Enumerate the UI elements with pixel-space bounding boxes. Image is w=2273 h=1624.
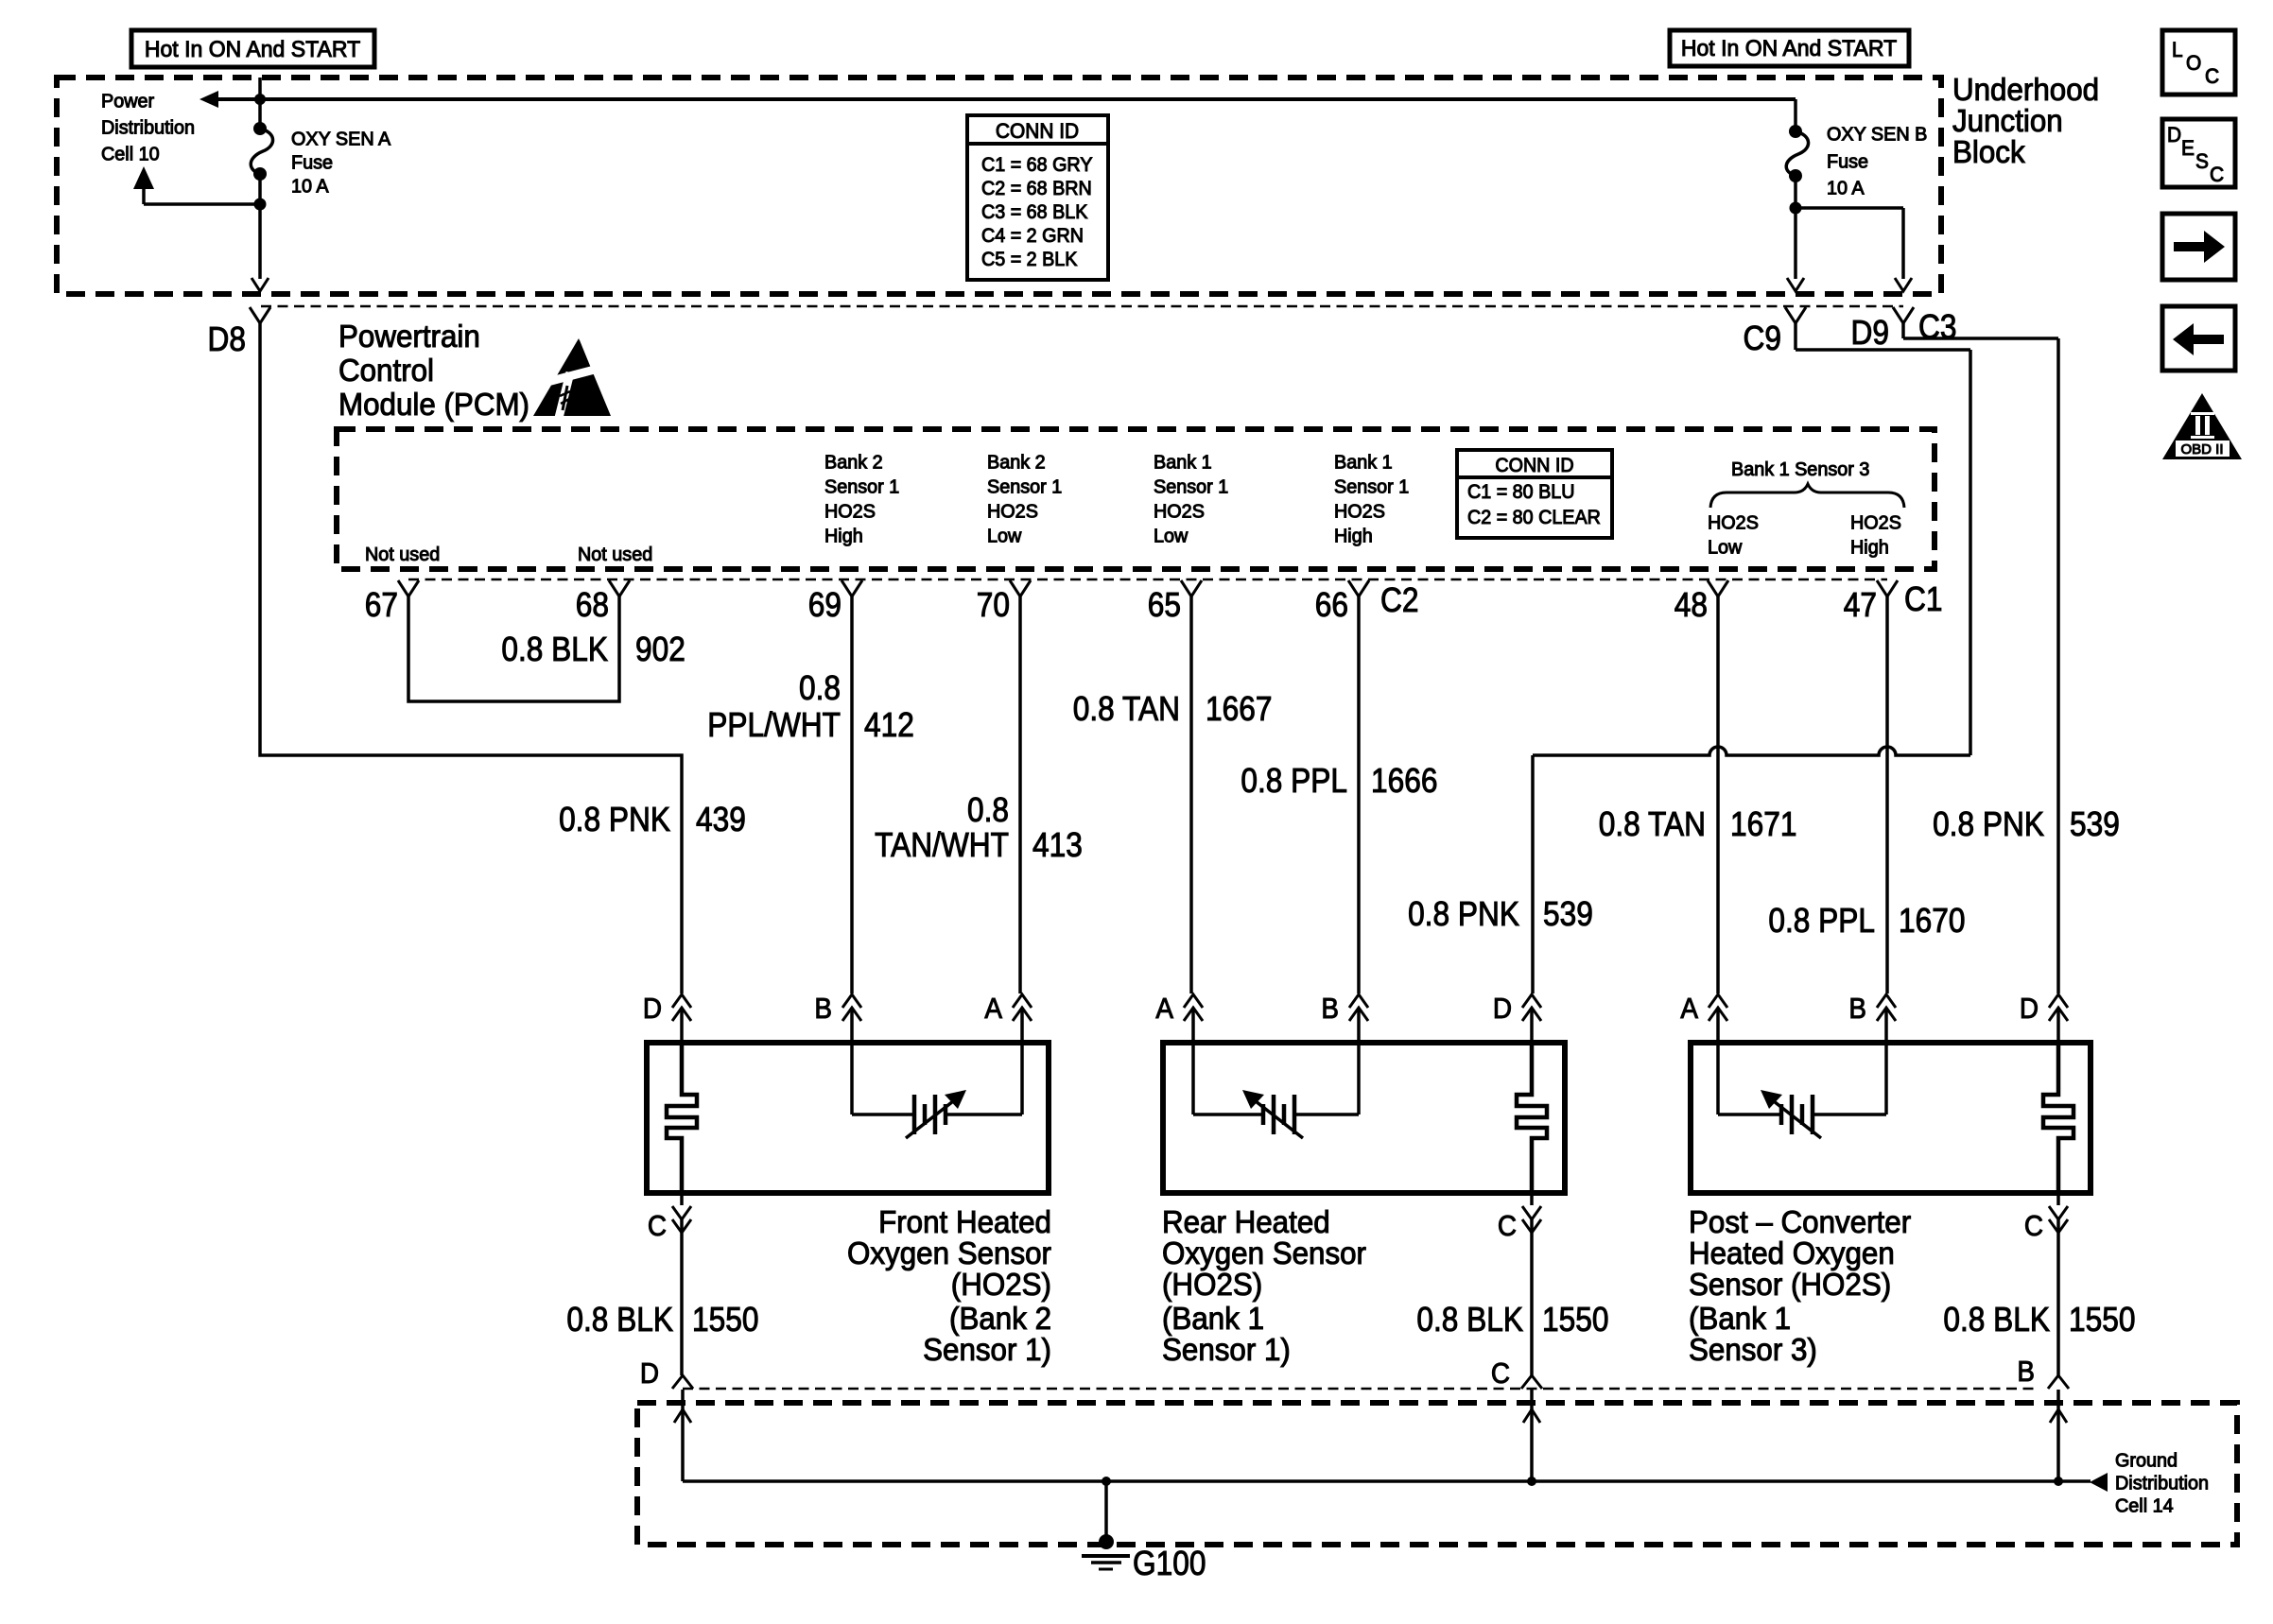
svg-text:0.8 TAN: 0.8 TAN [1073, 690, 1180, 728]
svg-text:0.8: 0.8 [967, 791, 1009, 829]
svg-text:C: C [2024, 1210, 2043, 1243]
svg-text:C4 = 2 GRN: C4 = 2 GRN [981, 226, 1084, 248]
connector: post HO2S pin C [2049, 1193, 2068, 1375]
svg-text:67: 67 [365, 586, 398, 624]
PCM connector dashed box [337, 429, 1935, 569]
wire label: 0.8 BLK 1550 (post) [1943, 1301, 2135, 1339]
conn id table: PCM connectors [1457, 450, 1612, 538]
label: Power Distribution Cell 10 [101, 91, 195, 164]
connector: rear HO2S pin C [1522, 1193, 1541, 1375]
svg-text:A: A [984, 993, 1002, 1026]
wire label: 0.8 PNK 539 (post) [1933, 805, 2120, 843]
svg-text:Underhood: Underhood [1952, 72, 2099, 107]
wire: OXY SEN A output to PCM pin D8 [258, 204, 262, 279]
svg-text:High: High [824, 526, 863, 546]
svg-text:Not used: Not used [365, 544, 440, 565]
brace: Bank 1 Sensor 3 group [1710, 484, 1904, 508]
svg-text:0.8 BLK: 0.8 BLK [1943, 1301, 2050, 1339]
svg-text:D: D [2167, 124, 2181, 147]
svg-text:Hot In ON And START: Hot In ON And START [145, 37, 360, 62]
label: Not used (pin 68) [578, 544, 652, 565]
wire label: 0.8 PPL 1666 [1241, 762, 1437, 800]
svg-text:C9: C9 [1744, 320, 1781, 357]
svg-text:D8: D8 [208, 320, 246, 358]
svg-text:1671: 1671 [1730, 805, 1796, 843]
pin label group: Bank 1 Sensor 1 HO2S High (pin 66) [1334, 452, 1409, 546]
label: OXY SEN B Fuse 10 A [1827, 124, 1927, 199]
wire: pin 65 to rear HO2S pin A (0.8 TAN 1667) [1189, 596, 1193, 993]
svg-text:C2 = 68 BRN: C2 = 68 BRN [981, 179, 1092, 200]
svg-text:Hot In ON And START: Hot In ON And START [1681, 36, 1897, 61]
pin letter: B (ground row) [2017, 1356, 2035, 1389]
svg-text:HO2S: HO2S [1154, 501, 1205, 522]
connector Y: PCM pin 48 [1708, 580, 1728, 596]
pin letter: B (rear) [1321, 993, 1339, 1026]
connector Y: PCM pin 68 [609, 580, 630, 596]
svg-text:D: D [1493, 993, 1512, 1026]
pin number: 68 [576, 586, 609, 624]
wire stubs into rear HO2S [1193, 1008, 1532, 1043]
wire: G100 drop [1104, 1481, 1108, 1541]
svg-text:OXY SEN A: OXY SEN A [291, 129, 391, 149]
wire: top power bus from junction to OXY SEN B fuse [217, 97, 1796, 101]
svg-text:0.8: 0.8 [799, 669, 841, 707]
arrow: power feed to Power Distribution (left-pointing) [200, 91, 218, 108]
label box: Hot In ON And START (left) [131, 30, 374, 67]
wire: rear HO2S ground drop [1523, 1390, 1540, 1481]
svg-text:PPL/WHT: PPL/WHT [707, 706, 841, 744]
wire: OXY SEN B to connector C9 [1794, 208, 1797, 279]
svg-text:Bank 1: Bank 1 [1334, 452, 1393, 473]
wire label: 0.8 TAN/WHT 413 [875, 791, 1083, 864]
pin number: 66 [1315, 586, 1348, 624]
underhood junction block dashed box [57, 78, 1941, 294]
label: Underhood Junction Block [1952, 72, 2099, 169]
svg-text:C: C [2205, 65, 2219, 89]
svg-text:Fuse: Fuse [291, 152, 333, 173]
svg-text:Not used: Not used [578, 544, 652, 565]
arrow: wire into junction block edge at D9 [1895, 278, 1912, 291]
svg-text:High: High [1850, 537, 1889, 558]
wire: below OXY SEN A fuse [258, 174, 262, 204]
pin number: 65 [1148, 586, 1181, 624]
svg-text:0.8 BLK: 0.8 BLK [1416, 1301, 1523, 1339]
wire: ground bus [683, 1479, 2091, 1483]
wire: pin 47 to post HO2S pin B (0.8 PPL 1670) [1885, 596, 1889, 993]
connector Y: PCM pin 69 [842, 580, 862, 596]
svg-text:Module (PCM): Module (PCM) [338, 387, 529, 422]
svg-text:66: 66 [1315, 586, 1348, 624]
svg-text:0.8 BLK: 0.8 BLK [566, 1301, 673, 1339]
pin label group: Bank 1 Sensor 1 HO2S Low (pin 65) [1154, 452, 1228, 546]
wire: C9 to rear HO2S pin D (0.8 PNK 539) [1533, 323, 1970, 993]
svg-text:CONN ID: CONN ID [1495, 455, 1573, 476]
svg-text:1550: 1550 [1542, 1301, 1608, 1339]
component box: Rear Heated Oxygen Sensor [1163, 1043, 1565, 1193]
svg-text:Sensor 1: Sensor 1 [824, 476, 899, 497]
icon: OBD II triangle [2162, 393, 2242, 459]
svg-text:TAN/WHT: TAN/WHT [875, 826, 1009, 864]
component box: Post-Converter Heated Oxygen Sensor [1691, 1043, 2091, 1193]
svg-text:D: D [2020, 993, 2039, 1026]
pin letter: A (rear) [1155, 993, 1173, 1026]
svg-text:Sensor 1: Sensor 1 [1154, 476, 1228, 497]
wire label: 0.8 PPL 1670 [1768, 902, 1965, 940]
connector Y: junction block pin D9 [1893, 307, 1914, 323]
arrow: wire into junction block edge at C9 [1787, 278, 1804, 291]
svg-text:Distribution: Distribution [2115, 1473, 2209, 1494]
svg-text:Cell 10: Cell 10 [101, 144, 160, 164]
svg-text:Low: Low [1154, 526, 1189, 546]
svg-text:A: A [1155, 993, 1173, 1026]
svg-text:68: 68 [576, 586, 609, 624]
svg-text:48: 48 [1674, 586, 1708, 624]
svg-text:439: 439 [696, 801, 746, 838]
connector: ground pin C [1521, 1375, 1542, 1389]
ground: G100 [1082, 1534, 1206, 1582]
pin letter: A (front) [984, 993, 1002, 1026]
wire: pin 69 to front HO2S pin B (0.8 PPL/WHT 412) [850, 596, 854, 993]
wire label: 0.8 PPL/WHT 412 [707, 669, 914, 744]
svg-text:1670: 1670 [1899, 902, 1965, 940]
junction dot: ground bus at rear drop [1527, 1477, 1536, 1486]
svg-text:0.8 PNK: 0.8 PNK [1408, 895, 1519, 933]
svg-text:B: B [814, 993, 832, 1026]
icon box: DESC [2162, 119, 2235, 187]
component label: Post-Converter Heated Oxygen Sensor (HO2S) (Bank 1 Sensor 3) [1689, 1204, 1911, 1367]
svg-text:Fuse: Fuse [1827, 151, 1868, 172]
wire stubs into front HO2S [682, 1008, 1022, 1043]
connector: front HO2S pin A [1013, 994, 1032, 1021]
svg-text:C1: C1 [1904, 580, 1942, 618]
svg-text:10 A: 10 A [291, 176, 329, 197]
junction dot: OXY SEN A branch [254, 199, 267, 211]
svg-text:A: A [1680, 993, 1698, 1026]
svg-text:B: B [1321, 993, 1339, 1026]
pin label: D9 [1851, 314, 1889, 352]
wire: pin 66 to rear HO2S pin B (0.8 PPL 1666) [1357, 596, 1361, 993]
svg-text:Sensor 1): Sensor 1) [1162, 1332, 1291, 1367]
svg-text:(HO2S): (HO2S) [1162, 1267, 1262, 1302]
junction dot: OXY SEN B branch [1790, 202, 1802, 215]
svg-text:OBD II: OBD II [2180, 441, 2223, 458]
junction dot at OXY SEN A fuse tap [254, 94, 266, 105]
heater element: rear HO2S [1517, 1043, 1547, 1193]
connector Y: PCM pin 67 [398, 580, 419, 596]
svg-text:1550: 1550 [692, 1301, 758, 1339]
svg-text:Sensor 1: Sensor 1 [1334, 476, 1409, 497]
pin letter: C (front) [648, 1210, 667, 1243]
wire: front HO2S ground drop [674, 1390, 691, 1481]
wire label: 0.8 PNK 539 (rear) [1408, 895, 1593, 933]
svg-text:1666: 1666 [1371, 762, 1437, 800]
svg-text:Heated Oxygen: Heated Oxygen [1689, 1235, 1895, 1270]
svg-text:C: C [1498, 1210, 1517, 1243]
fuse: OXY SEN B 10 A [1786, 125, 1808, 182]
svg-text:C5 = 2 BLK: C5 = 2 BLK [981, 250, 1078, 271]
svg-text:Block: Block [1952, 134, 2026, 169]
component box: Front Heated Oxygen Sensor [647, 1043, 1049, 1193]
svg-text:0.8 PNK: 0.8 PNK [1933, 805, 2044, 843]
svg-text:1667: 1667 [1206, 690, 1272, 728]
connector: front HO2S pin C [672, 1193, 691, 1375]
pin letter: A (post) [1680, 993, 1698, 1026]
icon box: forward arrow [2162, 214, 2235, 280]
svg-text:0.8 TAN: 0.8 TAN [1599, 805, 1706, 843]
svg-text:Rear Heated: Rear Heated [1162, 1204, 1330, 1239]
ground connector row (thin dashed) [683, 1388, 2038, 1391]
svg-text:D9: D9 [1851, 314, 1889, 352]
svg-text:1550: 1550 [2069, 1301, 2135, 1339]
svg-text:Ground: Ground [2115, 1450, 2178, 1471]
pin label group: HO2S Low (pin 48) [1708, 512, 1759, 558]
connector Y: junction block pin C9 [1785, 307, 1806, 323]
svg-text:0.8 PPL: 0.8 PPL [1768, 902, 1875, 940]
svg-text:10 A: 10 A [1827, 178, 1865, 199]
arrow: wire into junction block edge at D8 [252, 278, 269, 291]
svg-text:413: 413 [1032, 826, 1083, 864]
svg-text:Junction: Junction [1952, 103, 2063, 138]
svg-text:412: 412 [864, 706, 914, 744]
arrow: up into Power Distribution Cell 10 [133, 166, 154, 189]
svg-text:65: 65 [1148, 586, 1181, 624]
conn id table: junction block connectors [967, 115, 1108, 280]
svg-text:C1 = 80 BLU: C1 = 80 BLU [1467, 482, 1574, 504]
sensor cell: rear HO2S variable source [1193, 1090, 1359, 1138]
svg-text:0.8 BLK: 0.8 BLK [501, 631, 608, 668]
icon box: back arrow [2162, 306, 2235, 371]
wire: front HO2S sense leads [852, 1043, 1022, 1114]
connector: post HO2S pin D [2049, 994, 2068, 1021]
connector Y: PCM pin 65 [1181, 580, 1202, 596]
wire: pins 67-68 unused loop (0.8 BLK 902) [408, 596, 619, 701]
svg-text:CONN ID: CONN ID [996, 120, 1079, 144]
svg-text:C2: C2 [1380, 581, 1418, 619]
connector Y: PCM pin D8 [250, 307, 270, 323]
wire stubs into post HO2S [1718, 1008, 2058, 1043]
svg-text:Distribution: Distribution [101, 117, 195, 138]
pin number: 70 [977, 586, 1010, 624]
svg-text:E: E [2181, 137, 2195, 161]
connector: front HO2S pin B [842, 994, 861, 1021]
svg-text:47: 47 [1844, 586, 1877, 624]
wire label: 0.8 PNK 439 [559, 801, 746, 838]
svg-text:539: 539 [2070, 805, 2120, 843]
pin number: 47 [1844, 586, 1877, 624]
svg-text:B: B [1848, 993, 1866, 1026]
svg-text:Low: Low [987, 526, 1022, 546]
svg-text:C1 = 68 GRY: C1 = 68 GRY [981, 155, 1093, 177]
label: Powertrain Control Module (PCM) [338, 319, 529, 422]
svg-text:69: 69 [808, 586, 842, 624]
component label: Front Heated Oxygen Sensor (HO2S) (Bank 2 Sensor 1) [847, 1204, 1051, 1367]
svg-text:Sensor 1): Sensor 1) [923, 1332, 1051, 1367]
svg-text:L: L [2172, 39, 2183, 62]
heater element: post HO2S [2043, 1043, 2073, 1193]
svg-text:Bank 2: Bank 2 [824, 452, 883, 473]
pin label group: Bank 2 Sensor 1 HO2S High (pin 69) [824, 452, 899, 546]
arrow: ground distribution cell feed (left-pointing) [2090, 1473, 2108, 1492]
svg-text:Low: Low [1708, 537, 1743, 558]
svg-text:70: 70 [977, 586, 1010, 624]
svg-text:OXY SEN B: OXY SEN B [1827, 124, 1927, 145]
svg-text:539: 539 [1543, 895, 1593, 933]
pin letter: D (front) [643, 993, 662, 1026]
svg-text:0.8 PPL: 0.8 PPL [1241, 762, 1347, 800]
svg-text:Front Heated: Front Heated [878, 1204, 1051, 1239]
pin letter: C (ground row) [1491, 1357, 1510, 1391]
PCM top boundary (thin dashed) [261, 305, 1903, 308]
connector: front HO2S pin D [672, 994, 691, 1021]
ground distribution dashed box [637, 1403, 2237, 1545]
label: Not used (pin 67) [365, 544, 440, 565]
junction dot: ground bus at G100 [1102, 1477, 1111, 1486]
pin number: 67 [365, 586, 398, 624]
svg-text:D: D [643, 993, 662, 1026]
wire: below OXY SEN B fuse [1794, 176, 1797, 208]
svg-text:Bank 2: Bank 2 [987, 452, 1046, 473]
pin number: 69 [808, 586, 842, 624]
svg-text:C3: C3 [1918, 308, 1956, 346]
svg-text:C: C [648, 1210, 667, 1243]
wire: D8 pin to front HO2S pin D (0.8 PNK 439) [260, 323, 682, 993]
svg-text:O: O [2186, 52, 2201, 76]
wire: D9 to post HO2S pin D (0.8 PNK 539) [1903, 323, 2058, 993]
connector: post HO2S pin A [1709, 994, 1727, 1021]
wire: rear HO2S sense leads [1193, 1043, 1359, 1114]
svg-text:(HO2S): (HO2S) [951, 1267, 1051, 1302]
svg-text:0.8 PNK: 0.8 PNK [559, 801, 670, 838]
svg-text:Oxygen Sensor: Oxygen Sensor [847, 1235, 1051, 1270]
wire: power bus drop to OXY SEN B fuse [1794, 99, 1797, 131]
svg-text:902: 902 [635, 631, 685, 668]
fuse: OXY SEN A 10 A [251, 122, 272, 181]
svg-text:Control: Control [338, 353, 434, 388]
label: Ground Distribution Cell 14 [2115, 1450, 2209, 1516]
junction dot: ground bus at post drop [2054, 1477, 2063, 1486]
pin label: C9 [1744, 320, 1781, 357]
svg-text:Bank 1: Bank 1 [1154, 452, 1212, 473]
svg-text:Sensor (HO2S): Sensor (HO2S) [1689, 1267, 1891, 1302]
wire: OXY SEN A fuse feed drop [258, 78, 262, 129]
svg-text:HO2S: HO2S [987, 501, 1038, 522]
PCM pin row (thin dashed) [408, 579, 1887, 581]
label: OXY SEN A Fuse 10 A [291, 129, 391, 197]
svg-text:Power: Power [101, 91, 154, 112]
connector: post HO2S pin B [1877, 994, 1896, 1021]
connector: ground pin D [672, 1375, 693, 1389]
sensor cell: front HO2S variable source [852, 1090, 1022, 1138]
pin letter: D (ground row) [640, 1357, 659, 1391]
wire label: 0.8 BLK 1550 (rear) [1416, 1301, 1608, 1339]
wire label: 0.8 TAN 1671 [1599, 805, 1797, 843]
connector label: C3 [1918, 308, 1956, 346]
heater element: front HO2S [667, 1043, 697, 1193]
svg-text:Powertrain: Powertrain [338, 319, 480, 354]
svg-text:Sensor 1: Sensor 1 [987, 476, 1062, 497]
svg-text:Cell 14: Cell 14 [2115, 1495, 2174, 1516]
symbol: ESD sensitive device triangle [526, 338, 613, 418]
pin letter: B (post) [1848, 993, 1866, 1026]
svg-text:HO2S: HO2S [1850, 512, 1901, 533]
svg-text:C3 = 68 BLK: C3 = 68 BLK [981, 202, 1088, 224]
svg-text:D: D [640, 1357, 659, 1391]
connector: ground pin B [2048, 1375, 2069, 1389]
component label: Rear Heated Oxygen Sensor (HO2S) (Bank 1 Sensor 1) [1162, 1204, 1366, 1367]
svg-text:Sensor 3): Sensor 3) [1689, 1332, 1817, 1367]
svg-text:HO2S: HO2S [1708, 512, 1759, 533]
wire: post HO2S sense leads [1718, 1043, 1886, 1114]
svg-text:G100: G100 [1133, 1545, 1206, 1582]
wire label: 0.8 BLK 902 [501, 631, 685, 668]
connector label: C2 [1380, 581, 1418, 619]
svg-text:C: C [1491, 1357, 1510, 1391]
svg-text:(Bank 1: (Bank 1 [1162, 1301, 1264, 1336]
connector: rear HO2S pin A [1184, 994, 1203, 1021]
label: Bank 1 Sensor 3 [1731, 459, 1869, 480]
icon box: LOC [2162, 30, 2235, 95]
pin number: 48 [1674, 586, 1708, 624]
connector label: C1 [1904, 580, 1942, 618]
svg-text:C2 = 80 CLEAR: C2 = 80 CLEAR [1467, 508, 1601, 529]
svg-text:HO2S: HO2S [1334, 501, 1385, 522]
pin letter: D (rear) [1493, 993, 1512, 1026]
pin label group: Bank 2 Sensor 1 HO2S Low (pin 70) [987, 452, 1062, 546]
pin letter: D (post) [2020, 993, 2039, 1026]
wire: pin 48 to post HO2S pin A (0.8 TAN 1671) [1716, 596, 1720, 993]
connector Y: PCM pin 66 [1348, 580, 1369, 596]
wire: pin 70 to front HO2S pin A (0.8 TAN/WHT 413) [1018, 596, 1022, 993]
svg-text:High: High [1334, 526, 1373, 546]
svg-text:S: S [2195, 150, 2209, 174]
svg-text:Post – Converter: Post – Converter [1689, 1204, 1911, 1239]
connector Y: PCM pin 47 [1877, 580, 1898, 596]
svg-text:(Bank 1: (Bank 1 [1689, 1301, 1791, 1336]
connector: rear HO2S pin B [1349, 994, 1368, 1021]
label box: Hot In ON And START (right) [1670, 30, 1909, 66]
wire: branch to Power Distribution cell arrow [144, 185, 260, 204]
pin label group: HO2S High (pin 47) [1850, 512, 1901, 558]
svg-text:(Bank 2: (Bank 2 [949, 1301, 1051, 1336]
wire label: 0.8 TAN 1667 [1073, 690, 1273, 728]
pin letter: C (rear) [1498, 1210, 1517, 1243]
wire label: 0.8 BLK 1550 (front) [566, 1301, 758, 1339]
wire: post HO2S ground drop [2050, 1390, 2067, 1481]
svg-text:Oxygen Sensor: Oxygen Sensor [1162, 1235, 1366, 1270]
pin label: D8 [208, 320, 246, 358]
svg-text:B: B [2017, 1356, 2035, 1389]
connector: rear HO2S pin D [1522, 994, 1541, 1021]
svg-text:HO2S: HO2S [824, 501, 876, 522]
svg-text:Bank 1 Sensor 3: Bank 1 Sensor 3 [1731, 459, 1869, 480]
sensor cell: post HO2S variable source [1718, 1090, 1886, 1138]
wire: OXY SEN B branch to connector D9 [1796, 208, 1903, 279]
pin letter: B (front) [814, 993, 832, 1026]
svg-text:C: C [2210, 164, 2224, 187]
connector Y: PCM pin 70 [1010, 580, 1031, 596]
pin letter: C (post) [2024, 1210, 2043, 1243]
